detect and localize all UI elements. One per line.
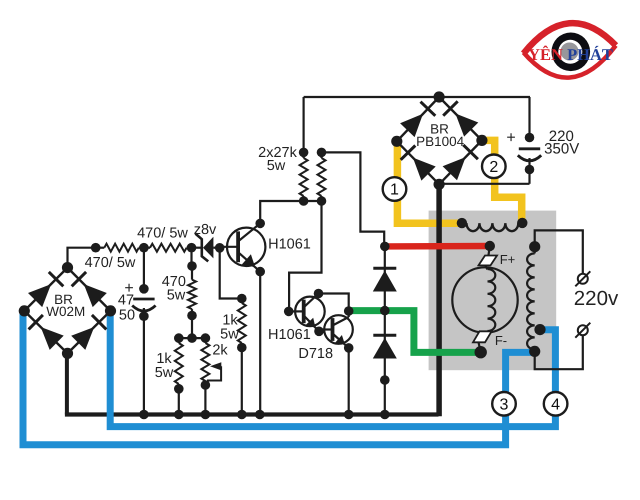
- svg-text:z8v: z8v: [194, 222, 217, 238]
- svg-text:W02M: W02M: [46, 304, 85, 319]
- svg-text:470/ 5w: 470/ 5w: [137, 226, 188, 242]
- svg-text:220v: 220v: [574, 287, 619, 310]
- svg-text:5w: 5w: [155, 365, 174, 381]
- svg-text:F+: F+: [500, 252, 516, 267]
- svg-text:+: +: [506, 130, 515, 147]
- svg-text:2: 2: [489, 159, 498, 176]
- svg-text:2k: 2k: [212, 343, 228, 359]
- svg-text:5w: 5w: [220, 327, 239, 343]
- svg-text:47: 47: [118, 292, 134, 308]
- svg-text:5w: 5w: [267, 158, 286, 174]
- svg-text:PB1004: PB1004: [416, 134, 465, 149]
- svg-text:4: 4: [551, 396, 560, 413]
- svg-text:D718: D718: [298, 346, 333, 362]
- svg-text:350V: 350V: [544, 141, 579, 158]
- svg-text:F-: F-: [495, 333, 507, 348]
- svg-text:1: 1: [390, 182, 399, 199]
- svg-text:50: 50: [119, 308, 135, 324]
- svg-text:H1061: H1061: [268, 327, 311, 343]
- svg-text:5w: 5w: [167, 287, 186, 303]
- svg-text:470/ 5w: 470/ 5w: [85, 255, 136, 271]
- svg-text:YÊN PHÁT: YÊN PHÁT: [528, 45, 613, 64]
- svg-text:3: 3: [500, 396, 509, 413]
- svg-text:H1061: H1061: [268, 237, 311, 253]
